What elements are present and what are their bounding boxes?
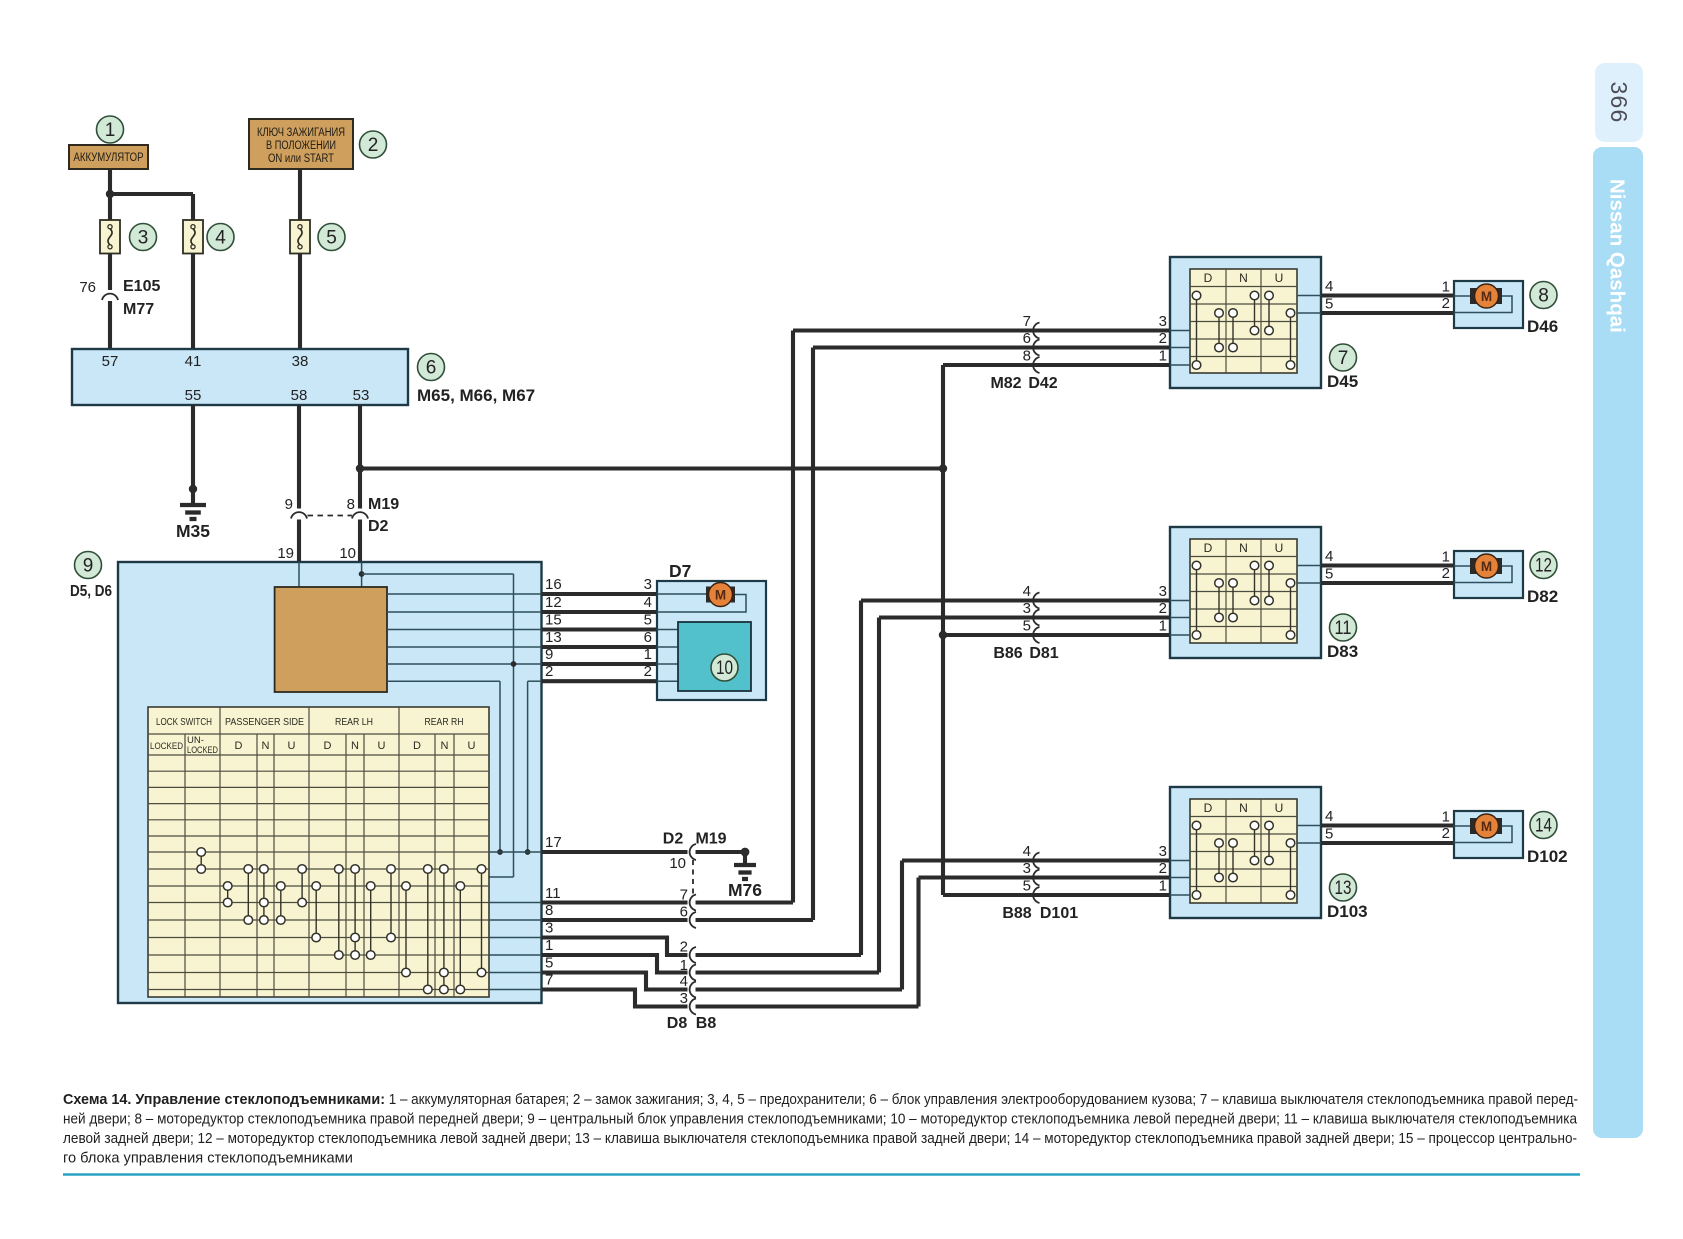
svg-text:3: 3: [644, 576, 652, 593]
svg-text:8: 8: [1023, 348, 1031, 365]
svg-text:9: 9: [83, 556, 94, 577]
svg-text:4: 4: [680, 973, 688, 990]
svg-text:5: 5: [1325, 566, 1333, 583]
svg-text:7: 7: [1338, 348, 1349, 369]
svg-text:2: 2: [1442, 825, 1450, 842]
svg-text:4: 4: [644, 594, 652, 611]
svg-text:8: 8: [1538, 286, 1549, 307]
svg-text:D46: D46: [1527, 317, 1558, 336]
svg-text:9: 9: [285, 496, 293, 513]
svg-text:17: 17: [545, 834, 562, 851]
svg-text:4: 4: [1023, 583, 1031, 600]
svg-text:12: 12: [1535, 556, 1552, 577]
svg-text:Схема 14. Управление стеклопод: Схема 14. Управление стеклоподъемниками:…: [63, 1092, 1578, 1108]
svg-text:D2: D2: [663, 831, 684, 848]
svg-text:PASSENGER SIDE: PASSENGER SIDE: [225, 716, 304, 728]
svg-text:N: N: [351, 740, 359, 752]
svg-text:14: 14: [1535, 816, 1552, 837]
svg-text:D8: D8: [667, 1015, 688, 1032]
svg-text:366: 366: [1606, 82, 1632, 124]
svg-text:D81: D81: [1029, 645, 1058, 662]
svg-text:6: 6: [680, 904, 688, 921]
svg-text:7: 7: [1023, 313, 1031, 330]
svg-text:M77: M77: [123, 301, 154, 318]
svg-text:U: U: [468, 740, 476, 752]
svg-text:4: 4: [1325, 278, 1333, 295]
svg-text:левой задней двери; 12 – мотор: левой задней двери; 12 – моторедуктор ст…: [63, 1131, 1577, 1147]
svg-text:D: D: [1204, 271, 1213, 285]
svg-text:10: 10: [339, 545, 356, 562]
svg-text:D82: D82: [1527, 587, 1558, 606]
svg-text:1: 1: [680, 957, 688, 974]
svg-text:ней двери; 8 – моторедуктор ст: ней двери; 8 – моторедуктор стеклоподъем…: [63, 1112, 1578, 1128]
svg-text:4: 4: [1325, 548, 1333, 565]
svg-text:2: 2: [1159, 600, 1167, 617]
svg-text:76: 76: [79, 279, 96, 296]
svg-text:1: 1: [644, 646, 652, 663]
svg-text:2: 2: [1442, 295, 1450, 312]
svg-text:13: 13: [1335, 878, 1352, 899]
svg-text:E105: E105: [123, 278, 160, 295]
svg-text:M65, M66, M67: M65, M66, M67: [417, 386, 535, 405]
svg-text:1: 1: [1442, 809, 1450, 826]
svg-text:D102: D102: [1527, 847, 1568, 866]
svg-text:41: 41: [185, 353, 202, 370]
svg-text:КЛЮЧ ЗАЖИГАНИЯ: КЛЮЧ ЗАЖИГАНИЯ: [257, 127, 345, 139]
svg-text:D7: D7: [669, 561, 691, 581]
svg-text:16: 16: [545, 576, 562, 593]
svg-text:M: M: [1481, 289, 1492, 304]
svg-text:58: 58: [291, 387, 308, 404]
svg-text:D: D: [1204, 801, 1213, 815]
svg-text:1: 1: [1442, 279, 1450, 296]
svg-text:N: N: [1239, 801, 1248, 815]
svg-text:2: 2: [644, 663, 652, 680]
svg-text:M82: M82: [990, 375, 1021, 392]
svg-text:D45: D45: [1327, 372, 1358, 391]
svg-text:N: N: [441, 740, 449, 752]
svg-text:8: 8: [347, 496, 355, 513]
svg-text:19: 19: [277, 545, 294, 562]
svg-text:2: 2: [1442, 565, 1450, 582]
svg-text:7: 7: [680, 887, 688, 904]
svg-text:U: U: [1275, 801, 1284, 815]
svg-text:U: U: [378, 740, 386, 752]
svg-text:3: 3: [1159, 843, 1167, 860]
svg-text:1: 1: [105, 120, 116, 141]
svg-text:6: 6: [426, 358, 437, 379]
svg-text:U: U: [1275, 271, 1284, 285]
svg-text:АККУМУЛЯТОР: АККУМУЛЯТОР: [74, 152, 144, 164]
svg-text:12: 12: [545, 594, 562, 611]
svg-text:4: 4: [1023, 843, 1031, 860]
svg-text:5: 5: [1023, 878, 1031, 895]
svg-text:57: 57: [102, 353, 119, 370]
svg-text:10: 10: [716, 658, 733, 679]
svg-text:3: 3: [680, 990, 688, 1007]
svg-text:D5, D6: D5, D6: [70, 583, 112, 600]
svg-text:3: 3: [1159, 583, 1167, 600]
svg-text:2: 2: [368, 135, 379, 156]
svg-text:D83: D83: [1327, 642, 1358, 661]
svg-text:1: 1: [1159, 878, 1167, 895]
svg-text:4: 4: [215, 228, 226, 249]
svg-text:1: 1: [1442, 549, 1450, 566]
svg-text:B88: B88: [1002, 905, 1031, 922]
svg-text:D: D: [324, 740, 332, 752]
svg-text:1: 1: [1159, 618, 1167, 635]
svg-text:N: N: [262, 740, 270, 752]
svg-text:D42: D42: [1028, 375, 1057, 392]
svg-text:6: 6: [1023, 330, 1031, 347]
svg-text:го блока управления стеклоподъ: го блока управления стеклоподъемниками: [63, 1151, 353, 1167]
svg-text:REAR LH: REAR LH: [335, 716, 373, 728]
svg-text:3: 3: [138, 228, 149, 249]
svg-text:M: M: [715, 588, 726, 603]
svg-text:3: 3: [1023, 600, 1031, 617]
svg-text:N: N: [1239, 541, 1248, 555]
svg-text:B86: B86: [993, 645, 1022, 662]
svg-text:В ПОЛОЖЕНИИ: В ПОЛОЖЕНИИ: [266, 140, 336, 152]
svg-text:55: 55: [185, 387, 202, 404]
svg-text:M35: M35: [176, 521, 210, 541]
svg-text:38: 38: [292, 353, 309, 370]
svg-text:M: M: [1481, 819, 1492, 834]
svg-text:2: 2: [1159, 860, 1167, 877]
svg-text:N: N: [1239, 271, 1248, 285]
svg-text:5: 5: [1325, 826, 1333, 843]
svg-text:3: 3: [1023, 860, 1031, 877]
svg-text:3: 3: [1159, 313, 1167, 330]
svg-text:D103: D103: [1327, 902, 1368, 921]
svg-text:11: 11: [1335, 618, 1352, 639]
svg-text:5: 5: [326, 228, 337, 249]
svg-text:LOCKED: LOCKED: [187, 745, 218, 756]
svg-text:LOCK SWITCH: LOCK SWITCH: [156, 716, 212, 728]
svg-text:D101: D101: [1040, 905, 1078, 922]
svg-text:M19: M19: [695, 831, 726, 848]
svg-text:5: 5: [644, 612, 652, 629]
svg-text:2: 2: [1159, 330, 1167, 347]
svg-text:U: U: [1275, 541, 1284, 555]
svg-text:LOCKED: LOCKED: [150, 741, 183, 752]
svg-text:6: 6: [644, 629, 652, 646]
svg-text:D: D: [1204, 541, 1213, 555]
svg-text:10: 10: [669, 855, 686, 872]
svg-text:M: M: [1481, 559, 1492, 574]
svg-text:B8: B8: [696, 1015, 717, 1032]
svg-text:53: 53: [353, 387, 370, 404]
svg-text:2: 2: [680, 939, 688, 956]
svg-text:4: 4: [1325, 808, 1333, 825]
svg-text:D2: D2: [368, 518, 389, 535]
svg-text:U: U: [288, 740, 296, 752]
svg-text:11: 11: [545, 885, 561, 902]
svg-text:D: D: [413, 740, 421, 752]
svg-text:ON или START: ON или START: [268, 153, 334, 165]
svg-text:5: 5: [1023, 618, 1031, 635]
svg-text:M19: M19: [368, 496, 399, 513]
svg-text:Nissan Qashqai: Nissan Qashqai: [1606, 179, 1629, 333]
svg-text:M76: M76: [728, 880, 762, 900]
svg-text:1: 1: [1159, 348, 1167, 365]
svg-text:5: 5: [1325, 296, 1333, 313]
svg-text:D: D: [235, 740, 243, 752]
svg-text:REAR RH: REAR RH: [425, 716, 464, 728]
